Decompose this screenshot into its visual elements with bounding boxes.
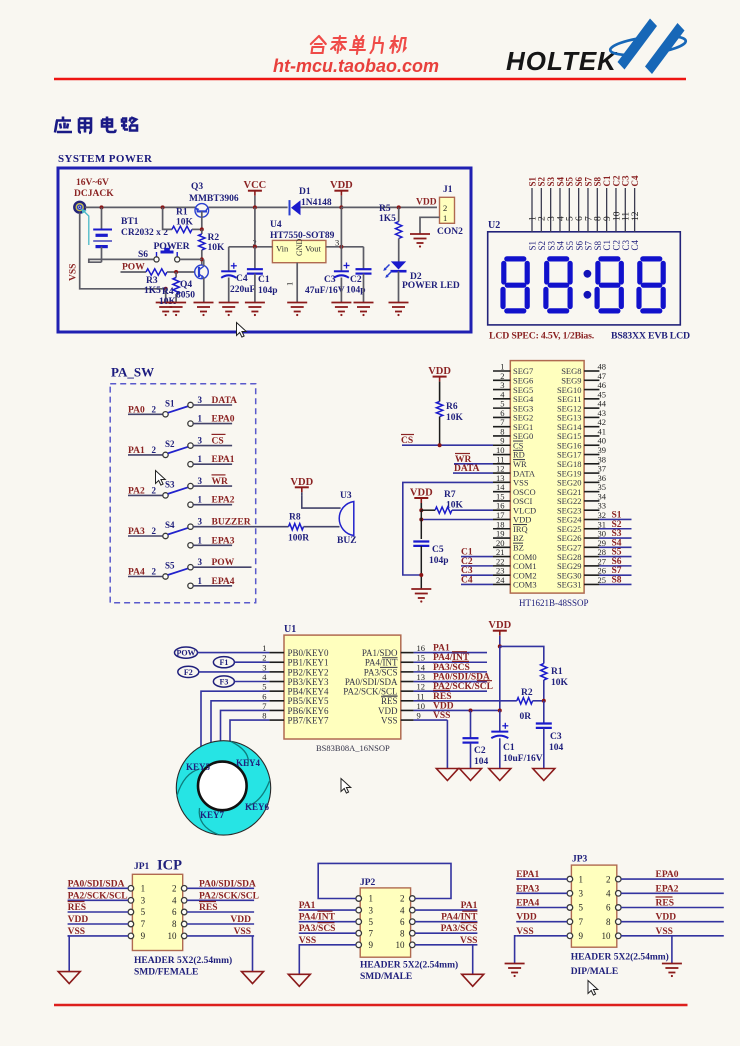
- svg-text:VSS: VSS: [299, 936, 316, 946]
- svg-text:104: 104: [549, 743, 564, 753]
- svg-text:1: 1: [198, 535, 203, 545]
- U1 pin 14 PA3/SCS: [364, 662, 426, 677]
- diode D1 1N4148: [290, 200, 301, 215]
- svg-text:F3: F3: [219, 678, 228, 687]
- junction R2 to switch node: [200, 257, 204, 261]
- HT1621 pin 2 SEG6: [493, 371, 533, 386]
- svg-text:2: 2: [400, 894, 405, 904]
- svg-text:7: 7: [262, 701, 266, 711]
- svg-text:KEY4: KEY4: [236, 758, 261, 768]
- LCD pin 1 net S1: [527, 176, 538, 250]
- wire VDD rail to J1: [341, 206, 437, 208]
- svg-text:VDD: VDD: [410, 488, 433, 499]
- battery BT1 symbol: [93, 207, 112, 262]
- svg-text:VDD: VDD: [428, 366, 451, 377]
- ground at U4: [287, 302, 307, 304]
- svg-text:104: 104: [474, 757, 489, 767]
- svg-text:HEADER 5X2(2.54mm): HEADER 5X2(2.54mm): [360, 960, 458, 971]
- switch S6 pushbutton: [154, 248, 180, 262]
- LCD pin 6 net S6: [574, 176, 585, 250]
- svg-text:EPA0: EPA0: [656, 870, 679, 880]
- resistor R2: [199, 229, 205, 265]
- junction R3/R4: [174, 270, 178, 274]
- svg-text:CON2: CON2: [437, 227, 463, 237]
- svg-text:Q4: Q4: [180, 280, 192, 290]
- IC U2 HT1621B body: [510, 361, 584, 593]
- ground at C2: [354, 302, 374, 304]
- svg-text:10uF/16V: 10uF/16V: [503, 754, 543, 764]
- resistor R3: [146, 269, 167, 275]
- wire R3 to Q4 base: [167, 271, 195, 273]
- svg-text:VSS: VSS: [68, 927, 85, 937]
- wire VDD riser down to C5: [420, 510, 422, 539]
- HT1621 pin 23 COM2: [493, 566, 537, 581]
- JP1 pin 5 RES: [68, 902, 146, 918]
- svg-text:EPA0: EPA0: [212, 415, 235, 425]
- svg-text:SEG31: SEG31: [557, 580, 582, 590]
- HT1621 pin 26 SEG30: [557, 566, 606, 581]
- svg-text:4: 4: [400, 905, 405, 915]
- svg-text:BT1: BT1: [121, 217, 139, 227]
- node bubble POW: [175, 647, 270, 658]
- svg-text:104p: 104p: [429, 556, 449, 566]
- svg-text:9: 9: [141, 931, 146, 941]
- HT1621 pin 44 SEG12: [557, 399, 607, 414]
- svg-text:PA0/SDI/SDA: PA0/SDI/SDA: [68, 879, 125, 889]
- svg-text:13: 13: [417, 672, 426, 682]
- JP1 pin 1 PA0/SDI/SDA: [68, 879, 146, 893]
- svg-text:3: 3: [198, 517, 203, 527]
- header JP2 body: [360, 888, 410, 957]
- wire U1 pin 5 to keypad: [201, 691, 269, 758]
- wire JP3 pin10 to ground: [671, 936, 673, 964]
- capacitor C4 220uF: [221, 247, 237, 303]
- LCD pin 12 net C4: [630, 175, 641, 250]
- svg-text:C4: C4: [630, 239, 640, 250]
- HT1621 pin 43 SEG13: [557, 408, 606, 423]
- U1 pin 9 VSS: [381, 711, 421, 726]
- svg-text:104p: 104p: [258, 286, 278, 296]
- LCD pin 4 net S4: [555, 176, 566, 250]
- LCD pin 10 net C2: [611, 175, 622, 250]
- svg-text:1: 1: [198, 495, 203, 505]
- resistor R1: [163, 207, 202, 232]
- svg-text:WR: WR: [212, 477, 229, 487]
- HT1621 pin 37 SEG19: [557, 464, 606, 479]
- wire POW net to R3: [121, 271, 147, 273]
- svg-text:F1: F1: [219, 658, 228, 667]
- net label S5 on pin 28: [599, 548, 631, 558]
- svg-text:Vin: Vin: [276, 244, 289, 254]
- svg-text:U2: U2: [488, 220, 500, 231]
- svg-text:0R: 0R: [520, 712, 532, 722]
- JP2 pin 1: [356, 894, 373, 904]
- HT1621 pin 45 SEG11: [557, 389, 606, 404]
- JP2 pin 10 VSS: [396, 936, 478, 950]
- svg-text:6: 6: [400, 917, 405, 927]
- svg-text:R7: R7: [444, 490, 456, 500]
- resistor R2 0R (U1): [517, 698, 533, 704]
- svg-text:VDD: VDD: [230, 915, 251, 925]
- ground triangle at C1 (U1): [489, 769, 511, 781]
- wire Q3 collector to VCC node: [209, 206, 288, 208]
- svg-text:47uF/16V: 47uF/16V: [305, 286, 345, 296]
- LCD pin 3 net S3: [546, 176, 557, 250]
- switch S4 throw 1 net EPA3: [193, 535, 235, 546]
- svg-text:EPA3: EPA3: [516, 884, 539, 894]
- switch S4 body: [163, 520, 193, 548]
- svg-text:16V~6V: 16V~6V: [76, 178, 109, 188]
- svg-text:C5: C5: [432, 545, 444, 555]
- svg-text:PA2/SCK/SCL: PA2/SCK/SCL: [343, 687, 397, 697]
- ground triangle at C3 (U1): [533, 769, 555, 781]
- switch S1 body: [163, 398, 193, 426]
- footer red rule: [54, 1004, 688, 1007]
- node bubble F3: [213, 676, 269, 687]
- svg-text:R6: R6: [446, 402, 458, 412]
- U1 pin 13 PA0/SDI/SDA: [345, 672, 425, 687]
- svg-text:2: 2: [606, 874, 611, 884]
- JP1 pin 10 VSS: [168, 927, 255, 941]
- svg-text:PB5/KEY5: PB5/KEY5: [288, 696, 330, 706]
- wire U1 pin 6 to keypad: [211, 701, 269, 758]
- svg-text:PA3/SCS: PA3/SCS: [364, 667, 398, 677]
- HT1621 pin 24 COM3: [493, 575, 537, 590]
- svg-text:RES: RES: [381, 696, 398, 706]
- svg-text:9: 9: [417, 711, 421, 721]
- IC U1 BS83B08A body: [284, 635, 401, 739]
- ground triangle JP1 right: [242, 972, 264, 984]
- LCD 7-segment digit 4: [639, 259, 663, 311]
- ground at D2: [389, 302, 409, 304]
- svg-text:PB6/KEY6: PB6/KEY6: [288, 706, 330, 716]
- svg-text:14: 14: [417, 662, 426, 672]
- switch S3 throw 3 net WR: [193, 475, 232, 487]
- svg-text:R1: R1: [176, 208, 188, 218]
- net label WR with wire to pin 11: [454, 454, 493, 466]
- svg-text:ICP: ICP: [157, 858, 182, 874]
- junction VDD/C2: [469, 708, 473, 712]
- net label PA0/SDI/SDA on U1 pin 13: [414, 673, 490, 683]
- wire VDD to pin 17: [421, 519, 493, 521]
- HT1621 pin 40 SEG16: [557, 436, 606, 451]
- HT1621 pin 17 VDD: [493, 510, 531, 525]
- svg-text:SYSTEM POWER: SYSTEM POWER: [58, 153, 153, 165]
- U1 pin 7 PB6/KEY6: [262, 701, 329, 716]
- wire U4 Vout row: [326, 246, 364, 248]
- svg-text:KEY6: KEY6: [245, 802, 270, 812]
- ground triangle at C2 (U1): [460, 769, 482, 781]
- resistor R6: [436, 402, 442, 446]
- svg-text:1: 1: [141, 884, 146, 894]
- svg-text:PA3/SCS: PA3/SCS: [299, 924, 336, 934]
- svg-text:10: 10: [396, 940, 406, 950]
- net label C4 to COM3: [461, 575, 493, 585]
- HT1621 pin 12 DATA: [493, 464, 536, 479]
- mouse cursor near U1: [341, 779, 351, 794]
- svg-text:220uF: 220uF: [230, 285, 256, 295]
- JP2 pin 7 PA3/SCS: [299, 923, 374, 939]
- svg-text:GND: GND: [295, 238, 304, 256]
- HT1621 pin 48 SEG8: [561, 362, 606, 377]
- svg-text:HT1621B-48SSOP: HT1621B-48SSOP: [519, 598, 589, 608]
- capacitor C2 104 (U1): [463, 710, 479, 768]
- svg-text:4: 4: [262, 672, 267, 682]
- svg-text:S4: S4: [165, 520, 175, 530]
- LCD colon dots: [584, 270, 592, 299]
- svg-text:1: 1: [443, 213, 447, 223]
- svg-text:RES: RES: [199, 903, 217, 913]
- junction VCC/Vin: [253, 245, 257, 249]
- svg-text:S6: S6: [138, 250, 148, 260]
- svg-text:S1: S1: [165, 398, 175, 408]
- net label S1 on pin 32: [599, 510, 631, 520]
- svg-text:PB0/KEY0: PB0/KEY0: [288, 648, 330, 658]
- svg-text:SMD/MALE: SMD/MALE: [360, 972, 412, 982]
- svg-text:KEY5: KEY5: [186, 762, 211, 772]
- svg-text:Q3: Q3: [191, 182, 203, 192]
- svg-text:C3: C3: [550, 732, 562, 742]
- svg-text:VSS: VSS: [381, 715, 398, 725]
- svg-text:PB2/KEY2: PB2/KEY2: [288, 667, 329, 677]
- svg-text:EPA3: EPA3: [212, 536, 235, 546]
- wire U4 GND pin to ground: [296, 263, 298, 303]
- junction VDD riser/pin17: [419, 518, 423, 522]
- svg-text:3: 3: [198, 435, 203, 445]
- wire battery negative to switch S6: [89, 259, 154, 262]
- HT1621 pin 14 OSCO: [493, 482, 536, 497]
- JP2 pin 2: [400, 894, 415, 904]
- svg-text:SMD/FEMALE: SMD/FEMALE: [134, 968, 198, 978]
- HT1621 pin 5 SEG3: [493, 399, 533, 414]
- wire VSS pin 13 loop to C5 ground: [403, 482, 493, 575]
- svg-text:D1: D1: [299, 187, 311, 197]
- svg-text:HEADER 5X2(2.54mm): HEADER 5X2(2.54mm): [134, 955, 232, 966]
- header red rule: [54, 78, 686, 81]
- capacitor C2 104p (system power): [356, 247, 372, 303]
- svg-text:CS: CS: [212, 436, 224, 446]
- wire JP1 pin10 to ground: [252, 936, 254, 972]
- junction at battery top: [100, 205, 104, 209]
- junction Q3 base node: [200, 227, 204, 231]
- svg-text:7: 7: [369, 928, 374, 938]
- svg-text:5: 5: [262, 682, 266, 692]
- net label S2 on pin 31: [599, 520, 631, 530]
- switch S3 input net PA2: [128, 485, 163, 496]
- JP2 pin 9 VSS: [299, 936, 374, 950]
- HT1621 pin 31 SEG25: [557, 519, 606, 534]
- svg-text:3: 3: [262, 662, 266, 672]
- header taobao shop name (Chinese): [309, 36, 407, 54]
- svg-text:104p: 104p: [346, 286, 366, 296]
- svg-text:7: 7: [141, 919, 146, 929]
- net label VSS on U1 pin 9: [414, 711, 451, 768]
- HT1621 pin 46 SEG10: [557, 380, 606, 395]
- HT1621 pin 4 SEG4: [493, 389, 534, 404]
- svg-text:VDD: VDD: [290, 477, 313, 488]
- net label VDD on U1 pin 10: [414, 701, 500, 711]
- junction VDD/R7: [419, 508, 423, 512]
- svg-text:BS83B08A_16NSOP: BS83B08A_16NSOP: [316, 743, 390, 753]
- svg-text:KEY7: KEY7: [200, 810, 225, 820]
- svg-text:VDD: VDD: [378, 706, 398, 716]
- ground at C5: [411, 588, 431, 590]
- wire J1 pin1 to ground: [420, 217, 440, 234]
- LCD pin 11 net C3: [621, 175, 632, 250]
- net label S4 on pin 29: [599, 538, 631, 548]
- HT1621 pin 32 SEG24: [557, 510, 606, 525]
- svg-text:U3: U3: [340, 491, 352, 501]
- svg-text:1: 1: [198, 576, 203, 586]
- svg-text:R4: R4: [162, 287, 174, 297]
- HT1621 pin 27 SEG29: [557, 556, 606, 571]
- ground at C3: [331, 302, 351, 304]
- JP3 pin 4 EPA2: [606, 884, 724, 898]
- svg-text:U1: U1: [284, 624, 296, 635]
- svg-text:RES: RES: [68, 903, 86, 913]
- svg-text:10K: 10K: [446, 413, 464, 423]
- U1 pin 16 PA1/SDO: [362, 643, 425, 658]
- junction R1/R2/C3: [542, 699, 546, 703]
- junction at VDD: [339, 205, 343, 209]
- wire VCC down to U4 Vin row: [254, 207, 256, 246]
- HT1621 pin 10 RD: [493, 445, 525, 460]
- LCD pin 9 net C1: [602, 175, 613, 250]
- JP1 pin 3 PA2/SCK/SCL: [68, 891, 146, 905]
- svg-text:2: 2: [152, 567, 157, 577]
- wire R2 to R1/C3 node: [533, 700, 544, 702]
- svg-text:1K5: 1K5: [379, 214, 396, 224]
- svg-text:Vout: Vout: [305, 244, 322, 254]
- svg-text:VDD: VDD: [656, 913, 677, 923]
- HT1621 pin 13 VSS: [493, 473, 529, 488]
- svg-text:3: 3: [198, 476, 203, 486]
- switch S5 body: [163, 561, 193, 589]
- HT1621 pin 29 SEG27: [557, 538, 606, 553]
- svg-text:PB1/KEY1: PB1/KEY1: [288, 658, 329, 668]
- mouse cursor near JP3: [588, 981, 598, 996]
- header JP3 body: [571, 865, 616, 947]
- svg-text:DIP/MALE: DIP/MALE: [571, 967, 619, 977]
- svg-text:DATA: DATA: [212, 396, 238, 406]
- keypad rotary fan: [176, 741, 270, 835]
- svg-text:PA0/SDI/SDA: PA0/SDI/SDA: [199, 879, 256, 889]
- HT1621 pin 41 SEG15: [557, 426, 606, 441]
- HT1621 pin 7 SEG1: [493, 417, 533, 432]
- svg-text:2: 2: [152, 445, 157, 455]
- HT1621 pin 16 VLCD: [493, 501, 536, 516]
- HT1621 pin 33 SEG23: [557, 501, 606, 516]
- svg-text:C4: C4: [236, 274, 248, 284]
- switch S1 input net PA0: [128, 404, 163, 415]
- JP3 pin 9 VSS: [516, 927, 583, 941]
- svg-text:6: 6: [172, 907, 177, 917]
- ground at C4: [219, 302, 239, 304]
- LCD pin 8 net S8: [593, 176, 604, 250]
- svg-text:EPA1: EPA1: [516, 870, 539, 880]
- svg-text:VSS: VSS: [433, 711, 450, 721]
- svg-text:R5: R5: [379, 204, 391, 214]
- JP2 pin 8 PA3/SCS: [400, 923, 477, 939]
- svg-text:1: 1: [369, 894, 374, 904]
- HT1621 pin 3 SEG5: [493, 380, 533, 395]
- net label S8 on pin 25: [599, 575, 631, 585]
- LED D2 POWER LED: [383, 261, 406, 302]
- wire VDD node down to pin 10 row: [499, 646, 501, 710]
- svg-text:VCC: VCC: [244, 180, 267, 191]
- svg-text:VSS: VSS: [69, 264, 79, 281]
- svg-text:PB7/KEY7: PB7/KEY7: [288, 715, 330, 725]
- svg-text:10: 10: [417, 701, 426, 711]
- svg-text:8: 8: [400, 928, 405, 938]
- svg-text:VDD: VDD: [433, 701, 454, 711]
- svg-text:PA2/SCK/SCL: PA2/SCK/SCL: [68, 891, 128, 901]
- svg-text:R8: R8: [289, 513, 301, 523]
- system power frame: [58, 168, 471, 332]
- HOLTEK logo mark: [609, 19, 686, 75]
- LCD 7-segment digit 1: [503, 259, 527, 311]
- ground triangle JP1 left: [58, 972, 80, 984]
- junction at R5 tap: [397, 205, 401, 209]
- svg-text:C1: C1: [503, 743, 515, 753]
- svg-text:BS83XX EVB LCD: BS83XX EVB LCD: [611, 331, 690, 342]
- svg-text:PA2/SCK/SCL: PA2/SCK/SCL: [199, 891, 259, 901]
- net label S6 on pin 27: [599, 557, 631, 567]
- JP3 pin 1 EPA1: [516, 870, 583, 884]
- U1 pin 12 PA2/SCK/SCL: [343, 682, 425, 697]
- U1 pin 2 PB1/KEY1: [262, 653, 328, 668]
- LCD pin 7 net S7: [583, 176, 594, 250]
- ground at R4: [166, 302, 186, 304]
- svg-text:12: 12: [631, 211, 641, 221]
- junction at VSS ground: [164, 287, 168, 291]
- svg-text:2: 2: [172, 884, 177, 894]
- switch S1 throw 3 net DATA: [193, 395, 237, 406]
- svg-text:5: 5: [369, 917, 374, 927]
- svg-text:4: 4: [606, 889, 611, 899]
- JP2 pin 3 PA1: [299, 901, 374, 915]
- PA_SW dashed frame: [110, 384, 256, 603]
- switch S2 input net PA1: [128, 445, 163, 456]
- wire JP2 pin9 to ground: [298, 945, 301, 975]
- svg-text:VSS: VSS: [656, 927, 673, 937]
- HT1621 pin 35 SEG21: [557, 482, 606, 497]
- svg-text:VSS: VSS: [234, 927, 251, 937]
- svg-text:16: 16: [417, 643, 426, 653]
- svg-text:4: 4: [172, 896, 177, 906]
- wire JP3 pin9 to ground: [515, 936, 517, 964]
- svg-text:1: 1: [198, 414, 203, 424]
- svg-text:PA3/SCS: PA3/SCS: [433, 663, 470, 673]
- svg-text:11: 11: [417, 691, 425, 701]
- svg-text:2: 2: [262, 653, 266, 663]
- wire DC jack sleeve down to VSS rail: [80, 213, 166, 289]
- U1 pin 8 PB7/KEY7: [262, 711, 329, 726]
- page title (Chinese): application circuit: [55, 117, 137, 134]
- svg-text:S5: S5: [165, 561, 175, 571]
- svg-text:EPA2: EPA2: [212, 496, 235, 506]
- svg-text:1: 1: [198, 454, 203, 464]
- svg-text:12: 12: [417, 682, 426, 692]
- svg-text:PA1: PA1: [433, 644, 450, 654]
- svg-text:PA_SW: PA_SW: [111, 365, 154, 380]
- capacitor C3 47uF/16V: [334, 247, 350, 303]
- junction VDD/C1: [498, 708, 502, 712]
- svg-text:3: 3: [198, 395, 203, 405]
- JP1 pin 4 PA2/SCK/SCL: [172, 891, 259, 905]
- svg-text:POWER LED: POWER LED: [402, 281, 460, 291]
- capacitor C1 10uF/16V (U1): [491, 710, 508, 768]
